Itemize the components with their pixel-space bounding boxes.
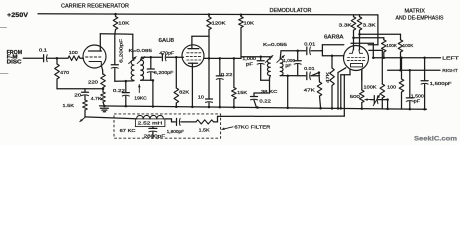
tube V1 grid [86,56,101,58]
node input junction [56,57,59,60]
svg-text:20: 20 [74,92,82,97]
svg-text:500: 500 [350,94,361,99]
svg-text:MATRIX: MATRIX [405,8,426,14]
capacitor 1000pF secondary [296,50,299,53]
tube V1 plate [89,50,102,52]
wire ground bus [100,106,427,109]
svg-text:DISC: DISC [7,60,22,66]
capacitor 0.22 demod [253,93,255,96]
node tank bottom line [115,80,133,82]
transformer T2 38KC primary [269,57,272,59]
svg-text:0.01: 0.01 [304,41,316,46]
tube V3 bottom leads [349,69,351,74]
wire V2 plate line [192,35,209,37]
capacitor 6200pF primary [114,34,116,65]
svg-text:+250V: +250V [7,13,28,19]
svg-text:pF: pF [246,62,253,67]
tube V1 cathode [89,62,101,66]
wire left deflector [321,50,322,52]
tube V3 envelope [344,46,369,71]
svg-text:pF: pF [285,63,291,68]
node bus V2 cathode [191,106,194,109]
wire V3 frame top [322,44,343,46]
arrow pot wiper [365,99,372,101]
resistor 100K matrix A [383,38,385,40]
svg-text:2800pF: 2800pF [144,133,166,138]
capacitor 1500pF left [424,58,426,81]
node cathode junction [102,88,105,91]
svg-text:0.22: 0.22 [113,88,126,93]
wire grid line V2 [142,56,162,58]
wire cap to node [48,57,57,59]
svg-text:47K: 47K [325,72,330,83]
inductor 2.52 mH box [135,119,165,127]
scan artifact left upper [0,27,7,29]
svg-text:100: 100 [69,50,79,55]
resistor 10K carrier [114,13,117,16]
capacitor 1000pF primary [259,56,262,59]
resistor 120K [208,13,211,16]
wire screen line [204,57,241,59]
wire plate line [100,33,133,35]
svg-text:10K: 10K [244,21,256,26]
resistor 220 [101,74,106,87]
transformer T1 19KC primary [132,34,134,58]
resistor 15K [233,58,235,87]
svg-text:1,500pF: 1,500pF [430,81,452,86]
inductor 2.52 mH coil [137,115,164,118]
svg-text:0.22: 0.22 [259,98,271,103]
svg-text:220: 220 [88,79,99,84]
resistor 1.5K cathode [83,100,88,110]
node bus left [103,105,106,108]
resistor 47K lower [331,56,333,68]
filter box dashed [114,114,221,138]
svg-text:0.22: 0.22 [221,72,233,77]
resistor 82K [175,57,177,88]
transformer T2 38KC secondary [279,51,282,59]
svg-text:10: 10 [198,94,205,99]
capacitor 20 [84,89,86,92]
tube V1 triode envelope [83,45,106,68]
scan artifact left lower [0,73,8,75]
tube V2 grids [187,52,201,54]
resistor 10K demod [240,14,243,16]
wire coil out [165,118,172,120]
callout 67KC FILTER [222,127,233,130]
resistor 4.7K [102,89,104,92]
resistor 470 [56,58,58,64]
svg-text:1,800pF: 1,800pF [167,129,185,134]
transformer T2 tuning arrows [265,55,273,62]
wire 1.5K to filter [84,110,86,117]
capacitor 0.01 lower [306,72,308,80]
capacitor 0.1 [43,55,45,62]
svg-text:2.52 mH: 2.52 mH [138,121,163,126]
wire 470pF to grid [166,56,183,58]
transformer T1 19KC secondary [140,57,143,60]
resistor 3.3K left [353,15,355,17]
wire V3 frame right [369,49,383,51]
wire trimmer to bus [386,98,389,101]
svg-text:LEFT: LEFT [442,56,459,62]
svg-text:SeekIC.com: SeekIC.com [414,136,458,143]
node plate left [352,36,355,39]
svg-text:470: 470 [60,70,70,75]
resistor 100 de-emphasis [401,58,403,79]
svg-text:100K: 100K [403,43,414,48]
svg-text:47K: 47K [304,88,316,93]
svg-text:3.3K: 3.3K [339,23,353,28]
resistor 100K matrix B [400,34,402,40]
svg-text:38 KC: 38 KC [261,89,278,94]
wire V3 plate leads [353,30,355,50]
capacitor 470pF [161,54,163,61]
tube V3 deflection plates [349,50,353,54]
node plate right [358,33,361,36]
svg-text:10K: 10K [118,20,130,25]
svg-text:3.3K: 3.3K [363,23,377,28]
svg-text:0.01: 0.01 [304,66,315,71]
wire lower line to 47K [311,73,319,76]
svg-text:100: 100 [387,85,397,90]
svg-text:6,200pF: 6,200pF [154,70,174,75]
arrow filter input tick [80,117,86,122]
node bus 0.22 [125,105,128,108]
svg-text:1,000: 1,000 [242,56,256,61]
ground symbol [100,107,108,109]
tube V2 plate [188,48,199,50]
svg-text:67 KC: 67 KC [120,128,137,133]
wire T2 secondary top line [281,50,306,52]
wire RIGHT output [388,69,440,71]
wire lower 0.01 line [311,75,320,77]
svg-text:120K: 120K [212,21,227,26]
resistor 100 [57,57,68,59]
svg-text:0.1: 0.1 [39,47,48,52]
capacitor 6200pF secondary [150,57,152,68]
svg-text:1.5K: 1.5K [63,103,76,108]
svg-text:1.5K: 1.5K [199,128,211,133]
node bus T1 return [152,105,155,108]
tube V3 grids [348,57,365,59]
B+ rail wire [38,14,378,15]
capacitor 1500pF right [409,70,411,97]
svg-text:15K: 15K [237,90,248,95]
capacitor 10 [206,98,213,100]
svg-text:82K: 82K [179,90,190,95]
svg-text:19KC: 19KC [134,96,147,101]
resistor 47K upper [318,71,321,74]
svg-text:4.7K: 4.7K [91,96,103,101]
potentiometer 500 [361,70,363,90]
svg-text:6AU8: 6AU8 [159,38,175,44]
resistor 1.5K filter [196,120,214,124]
arrow T1 slug [138,85,140,93]
wire input [23,57,43,59]
capacitor 2800pF [152,127,154,128]
svg-text:K=0.085: K=0.085 [129,48,153,53]
wire T2 primary return [269,76,272,78]
svg-text:DEMODULATOR: DEMODULATOR [270,8,312,14]
wire T2 secondary bottom line [280,75,306,77]
wire LEFT output [373,57,440,59]
tube V2 pentode envelope [182,45,204,67]
capacitor 1800pF [176,118,178,125]
svg-text:470pF: 470pF [159,51,174,56]
svg-text:100K: 100K [364,85,378,90]
wire V3 frame upper [351,42,373,44]
svg-text:RIGHT: RIGHT [442,68,458,74]
capacitor 0.22 tank [125,80,128,83]
wire wiper line [371,99,375,101]
capacitor 0.01 upper [306,47,308,55]
svg-text:6AR8A: 6AR8A [324,34,344,40]
wire cathode to 220 [102,73,104,75]
wire rail end drop [377,15,379,45]
resistor 3.3K right [359,15,361,17]
svg-text:67KC FILTER: 67KC FILTER [234,125,271,130]
svg-text:6,200pF: 6,200pF [118,38,123,63]
transformer T1 secondary bottom [141,79,153,81]
transformer T1 tuning arrows [129,57,137,64]
wire T2 top node [241,56,270,58]
svg-text:AND DE-EMPHASIS: AND DE-EMPHASIS [396,15,445,21]
wire screen drop [208,36,210,58]
wire filter output riser [343,75,345,116]
tube V3 cathode box [351,64,363,67]
resistor 100K lower [380,84,385,98]
tube V2 cathode [189,62,198,64]
svg-text:CARRIER REGENERATOR: CARRIER REGENERATOR [61,4,129,10]
capacitor balance trimmer [373,96,375,104]
svg-text:100K: 100K [386,43,397,48]
svg-text:K=0.055: K=0.055 [263,42,288,47]
capacitor 0.22 screen [219,58,221,75]
svg-text:pF: pF [414,99,421,104]
